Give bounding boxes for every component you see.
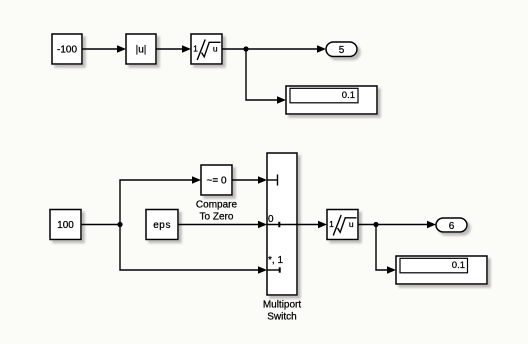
svg-text:u: u (349, 219, 354, 229)
svg-text:|u|: |u| (136, 45, 147, 56)
label Multiport Switch (263, 300, 302, 323)
selected input through-line with tick (267, 222, 297, 227)
svg-text:5: 5 (339, 45, 345, 56)
reciprocal sqrt block RSqrt1 (1/sqrt(u)) (191, 34, 222, 64)
constant block Const1 value -100 (52, 34, 82, 64)
wire eps to Multiport Switch port 2 (178, 221, 267, 229)
wire Abs1 to RSqrt1 (156, 45, 191, 53)
svg-text:Multiport: Multiport (263, 300, 302, 311)
abs block Abs1 |u| (126, 34, 156, 64)
wire branch down to Display2 (376, 225, 396, 274)
svg-text:*, 1: *, 1 (268, 255, 283, 266)
wire RSqrt1 to Out1 oval with branch (222, 45, 326, 53)
wire Compare To Zero to Multiport Switch control port (232, 176, 267, 184)
svg-text:6: 6 (449, 221, 455, 232)
reciprocal sqrt block RSqrt2 (1/sqrt(u)) (327, 210, 358, 240)
svg-text:eps: eps (153, 221, 171, 232)
output port Out2 (6) (436, 218, 467, 232)
port 3 stub with end tick (267, 267, 281, 272)
wire RSqrt2 to Out2 oval with branch (358, 221, 436, 229)
wire Multiport Switch to RSqrt2 (297, 221, 327, 229)
svg-text:0.1: 0.1 (342, 90, 355, 101)
svg-text:-100: -100 (57, 45, 77, 56)
display block Display2 showing 0.1 (396, 256, 487, 284)
output port Out1 (5) (326, 42, 357, 57)
wire Const1 to Abs1 (82, 45, 126, 53)
label Compare To Zero (196, 200, 238, 223)
eps constant block (146, 210, 178, 240)
wire branch down to Display1 (246, 49, 286, 104)
svg-text:u: u (213, 44, 218, 54)
wire Const2 to junction (81, 224, 120, 226)
junction node on top wire (243, 46, 248, 51)
svg-text:100: 100 (57, 220, 74, 231)
compare to zero block (~= 0) (201, 165, 232, 195)
display block Display1 showing 0.1 (286, 86, 377, 114)
control port marker (267, 175, 278, 186)
svg-text:~= 0: ~= 0 (206, 176, 226, 187)
wire branch down to Multiport Switch port 3 (120, 225, 267, 274)
junction node below Const2 wire (117, 222, 122, 227)
multiport switch block (267, 153, 297, 295)
svg-text:0.1: 0.1 (452, 260, 465, 271)
svg-text:1: 1 (193, 44, 198, 54)
svg-text:Compare: Compare (196, 200, 238, 211)
svg-text:To Zero: To Zero (200, 212, 234, 223)
constant block Const2 value 100 (50, 210, 81, 240)
junction node on bottom output wire (373, 222, 378, 227)
svg-text:0: 0 (268, 214, 274, 225)
svg-text:1: 1 (329, 219, 334, 229)
svg-text:Switch: Switch (267, 312, 296, 323)
wire branch up to Compare To Zero (120, 176, 201, 224)
